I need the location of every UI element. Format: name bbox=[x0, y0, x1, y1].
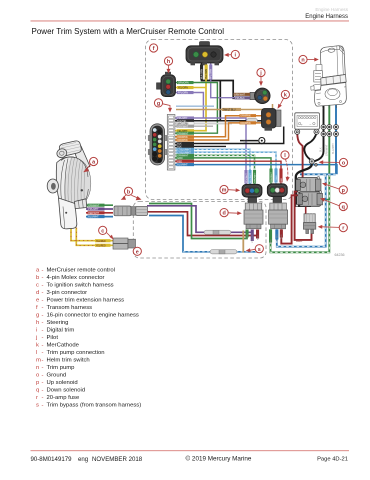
svg-text:s-Trim bypass (from transom ha: s-Trim bypass (from transom harness) bbox=[36, 402, 141, 408]
callout d bbox=[220, 209, 242, 217]
wire PPL from connector i to connector j bbox=[211, 62, 251, 98]
wire RED solenoid to d connector drop bbox=[281, 195, 299, 243]
svg-text:BLK: BLK bbox=[320, 147, 323, 152]
wire LT BLU/WHT g row to helm switch m bbox=[175, 149, 250, 185]
battery terminal block bbox=[295, 113, 320, 129]
connector j pilot bbox=[250, 88, 270, 104]
svg-text:GRN/ORN: GRN/ORN bbox=[178, 83, 189, 85]
svg-text:PPL/ORN: PPL/ORN bbox=[178, 93, 188, 95]
wire GRN pump lead down bbox=[271, 104, 330, 252]
svg-text:GRN/WHT: GRN/WHT bbox=[271, 171, 273, 182]
wire BLU/WHT solenoid frame bbox=[300, 173, 336, 175]
ground point o bbox=[309, 159, 317, 167]
callout i bbox=[224, 50, 239, 58]
wire RED/WHT remote to b connector bbox=[86, 212, 113, 214]
ring terminals on pump leads bbox=[321, 125, 339, 137]
remote wire labels bbox=[88, 204, 105, 219]
callout a bbox=[83, 157, 98, 172]
svg-text:YEL/ORN: YEL/ORN bbox=[178, 88, 188, 90]
svg-text:RED: RED bbox=[281, 234, 283, 239]
svg-text:RED: RED bbox=[257, 235, 259, 240]
svg-text:ORN/PNK: ORN/PNK bbox=[177, 140, 188, 142]
wire TAN row to connector j loop bbox=[176, 104, 273, 110]
svg-text:BLU/WHT: BLU/WHT bbox=[250, 172, 252, 183]
svg-text:90-8M0149179engNOVEMBER 2018: 90-8M0149179engNOVEMBER 2018 bbox=[31, 456, 143, 463]
header rule bbox=[31, 20, 350, 21]
drop labels above m and l bbox=[244, 169, 282, 184]
wire RED terminal block to up solenoid bbox=[297, 133, 302, 185]
wire YEL from connector i down to g row bbox=[175, 62, 206, 131]
svg-text:d-3-pin connector: d-3-pin connector bbox=[36, 290, 87, 296]
svg-text:o-Ground: o-Ground bbox=[36, 372, 66, 378]
svg-text:Page 4D-21: Page 4D-21 bbox=[317, 457, 348, 463]
callout p bbox=[322, 183, 347, 194]
svg-text:YEL/ORN: YEL/ORN bbox=[206, 69, 208, 79]
labels left of connector j bbox=[234, 93, 251, 100]
svg-text:64236: 64236 bbox=[335, 253, 345, 257]
svg-text:PPL/WHT: PPL/WHT bbox=[88, 209, 99, 211]
ignition connector c bbox=[113, 238, 136, 249]
callout o bbox=[319, 158, 348, 166]
footer rule bbox=[31, 450, 350, 451]
wire BRN/WHT stub into connector j bbox=[238, 93, 251, 95]
connector g 16-pin ladder bbox=[167, 115, 175, 171]
svg-text:e: e bbox=[136, 249, 139, 255]
wire GRN/ORN from connector h looping to g row bbox=[175, 83, 217, 134]
callout m bbox=[220, 185, 240, 193]
callout k bbox=[278, 90, 290, 108]
svg-text:© 2019 Mercury Marine: © 2019 Mercury Marine bbox=[186, 455, 252, 463]
inline connector on PPL run bbox=[204, 230, 231, 234]
svg-text:BLU/WHT: BLU/WHT bbox=[177, 165, 188, 167]
svg-text:LT BLU: LT BLU bbox=[277, 233, 279, 241]
svg-text:c-To ignition switch harness: c-To ignition switch harness bbox=[36, 282, 114, 288]
4-pin Molex connector b bbox=[114, 206, 148, 216]
svg-text:GRN/WHT: GRN/WHT bbox=[326, 144, 329, 156]
svg-text:q-Down solenoid: q-Down solenoid bbox=[36, 387, 85, 393]
wire BLK branch down to g row bbox=[219, 81, 221, 121]
svg-text:LT BLU: LT BLU bbox=[276, 175, 278, 183]
svg-text:n: n bbox=[301, 58, 304, 64]
svg-text:RED: RED bbox=[281, 177, 283, 182]
wire BLK ground frame around solenoids bbox=[296, 164, 312, 206]
wire BLU/WHT remote to b connector bbox=[86, 216, 113, 218]
helm trim switch connector m bbox=[242, 184, 262, 202]
svg-text:PPL/WHT: PPL/WHT bbox=[246, 173, 248, 183]
svg-text:Engine Harness: Engine Harness bbox=[315, 7, 348, 12]
wire BLK g short row bbox=[175, 145, 226, 147]
svg-text:PPL/WHT: PPL/WHT bbox=[252, 232, 254, 242]
svg-text:RED: RED bbox=[177, 161, 182, 163]
wire GRN stub at down solenoid bbox=[318, 199, 329, 201]
svg-text:Power Trim System with a MerCr: Power Trim System with a MerCruiser Remo… bbox=[32, 27, 225, 36]
callout h bbox=[164, 57, 172, 74]
svg-text:i-Digital trim: i-Digital trim bbox=[36, 327, 74, 333]
svg-text:m: m bbox=[222, 188, 227, 194]
svg-text:GRN/WHT: GRN/WHT bbox=[254, 172, 256, 183]
svg-text:YEL/RED: YEL/RED bbox=[96, 245, 106, 247]
callout q bbox=[320, 198, 347, 211]
svg-text:p-Up solenoid: p-Up solenoid bbox=[36, 380, 78, 386]
svg-text:GRY/WHT: GRY/WHT bbox=[177, 126, 188, 128]
svg-text:k: k bbox=[284, 93, 287, 99]
svg-text:f-Transom harness: f-Transom harness bbox=[36, 305, 92, 311]
wire GRN/WHT g row to helm switch m bbox=[175, 155, 255, 185]
wire GRN g row to connector l bbox=[175, 158, 271, 184]
svg-text:q: q bbox=[342, 205, 345, 211]
pin labels below connector i bbox=[200, 65, 213, 80]
callout l bbox=[281, 151, 290, 182]
connector g mate 16-pin round bbox=[148, 124, 167, 165]
MerCruiser remote control a (line art) bbox=[47, 141, 90, 229]
trim pump connector l bbox=[267, 184, 287, 203]
g row labels bbox=[177, 116, 195, 166]
YEL/RED labels bbox=[95, 239, 111, 247]
wire BLU/WHT b along bottom bbox=[149, 216, 262, 252]
svg-text:ORN/PNK: ORN/PNK bbox=[240, 116, 251, 118]
wire BLK row 2 to connector k bbox=[258, 120, 263, 122]
wire RED g row to connector l bbox=[175, 161, 281, 184]
svg-text:e-Power trim extension harness: e-Power trim extension harness bbox=[36, 297, 124, 303]
down solenoid q bbox=[296, 177, 323, 207]
wire GRY g row 4 bbox=[175, 125, 213, 127]
wire GRN b to d connector bbox=[149, 204, 247, 239]
svg-text:GRN/WHT: GRN/WHT bbox=[177, 133, 189, 135]
svg-text:n-Trim pump: n-Trim pump bbox=[36, 365, 75, 371]
svg-text:d: d bbox=[222, 211, 225, 217]
connector k MerCathode bbox=[262, 109, 282, 131]
wire GRN/WHT remote to b connector bbox=[86, 204, 113, 206]
wire BLK terminal block to ground bbox=[304, 133, 316, 160]
svg-text:h-Steering: h-Steering bbox=[36, 320, 68, 326]
3-pin connector d right bbox=[269, 203, 288, 229]
callout e bbox=[133, 247, 141, 255]
wire RED/WHT b to d connector bbox=[147, 212, 258, 236]
connector h steering bbox=[157, 72, 176, 97]
wire BLK g row 2 bbox=[175, 120, 246, 122]
wire PPL/WHT remote to b connector bbox=[86, 208, 113, 210]
svg-text:BLU/WHT: BLU/WHT bbox=[332, 143, 335, 154]
svg-text:g: g bbox=[157, 101, 160, 107]
svg-text:h: h bbox=[167, 59, 170, 65]
svg-text:j-Pilot: j-Pilot bbox=[35, 335, 58, 341]
callout n bbox=[299, 55, 319, 63]
power trim extension harness dashed box e bbox=[133, 202, 266, 259]
svg-text:TAN/LT BLU: TAN/LT BLU bbox=[223, 109, 236, 112]
wire LT BLU short row bbox=[176, 105, 214, 107]
wire BLK g row to connector k foot bbox=[175, 127, 284, 144]
svg-text:GRN: GRN bbox=[247, 234, 249, 239]
stub labels below d connectors bbox=[246, 230, 284, 245]
svg-text:RED/WHT: RED/WHT bbox=[88, 213, 99, 215]
wire BLU pump lead down bbox=[335, 104, 337, 174]
3-pin connector d left bbox=[244, 203, 263, 229]
svg-text:GRN/WHT: GRN/WHT bbox=[88, 205, 100, 207]
wire WHT g row 3 bbox=[175, 123, 232, 125]
labels right of connector h bbox=[177, 81, 194, 95]
svg-text:m-Helm trim switch: m-Helm trim switch bbox=[36, 357, 90, 363]
wire RED fuse loop to solenoid bbox=[295, 192, 312, 240]
wire PPL b to d connector bbox=[147, 206, 252, 233]
callout b bbox=[121, 187, 142, 200]
svg-text:Engine Harness: Engine Harness bbox=[305, 14, 348, 20]
connector i 3-pin Molex bbox=[186, 42, 223, 66]
wire PPL/WHT g row 1 to helm switch m bbox=[175, 118, 246, 185]
svg-text:GRN: GRN bbox=[270, 239, 272, 244]
svg-text:PPL/BLK: PPL/BLK bbox=[235, 98, 245, 100]
ring terminals on battery leads bbox=[295, 129, 320, 134]
transom harness dashed box f bbox=[146, 40, 293, 200]
wire BLK with ring eyelet near k bbox=[240, 140, 258, 142]
wire YEL from connector h bbox=[175, 87, 206, 89]
svg-text:ORN/PNK: ORN/PNK bbox=[240, 123, 251, 125]
callout r bbox=[318, 224, 348, 232]
svg-text:BRN/WHT: BRN/WHT bbox=[234, 94, 245, 96]
trim pump n (line art) bbox=[311, 46, 347, 110]
svg-text:k-MerCathode: k-MerCathode bbox=[36, 342, 80, 348]
wire BLK from connector i pin to connector j bbox=[202, 62, 252, 98]
wire RED fuse top stub bbox=[305, 207, 307, 215]
wire ORN g row to connector k pins bbox=[175, 116, 262, 140]
callout f bbox=[150, 44, 158, 52]
wire YEL/RED remote to c connector bbox=[71, 228, 113, 246]
wire PPL from connector h down to g row bbox=[175, 93, 203, 119]
svg-text:s: s bbox=[258, 247, 261, 253]
svg-text:l-Trim pump connection: l-Trim pump connection bbox=[36, 350, 105, 356]
wire TAN bypass jumper bbox=[242, 231, 244, 253]
up solenoid p bbox=[296, 178, 321, 193]
svg-text:BLK/ORN: BLK/ORN bbox=[202, 69, 204, 79]
svg-text:RED: RED bbox=[296, 239, 303, 243]
svg-text:r-20-amp fuse: r-20-amp fuse bbox=[36, 395, 80, 401]
wire BLK pump lead down to ground bbox=[315, 104, 324, 161]
svg-text:BLU/WHT: BLU/WHT bbox=[88, 217, 99, 219]
wire BLU g row long to solenoid frame bbox=[175, 165, 337, 175]
callout c bbox=[99, 226, 114, 240]
svg-text:a-MerCruiser remote control: a-MerCruiser remote control bbox=[36, 267, 115, 273]
labels left of connector k bbox=[222, 108, 256, 125]
callout s bbox=[246, 245, 264, 253]
inline connector on BLK row bbox=[247, 119, 258, 123]
svg-text:f: f bbox=[153, 46, 155, 52]
svg-text:YEL/RED: YEL/RED bbox=[96, 241, 106, 243]
svg-text:b-4-pin Molex connector: b-4-pin Molex connector bbox=[36, 275, 104, 281]
20-amp fuse r bbox=[303, 214, 315, 234]
wire LT BLU/WHT g row to connector l bbox=[175, 152, 276, 184]
callout g bbox=[154, 99, 172, 113]
svg-text:PPL/ORN: PPL/ORN bbox=[211, 69, 213, 79]
inline connector on BLU run bbox=[210, 250, 237, 254]
svg-text:g-16-pin connector to engine h: g-16-pin connector to engine harness bbox=[36, 312, 139, 318]
svg-text:c: c bbox=[101, 229, 104, 235]
callout j bbox=[257, 68, 265, 86]
